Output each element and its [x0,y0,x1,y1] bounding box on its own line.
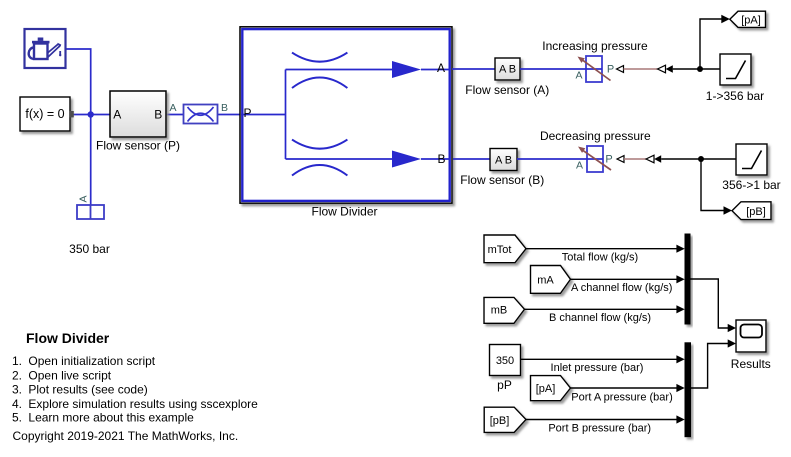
svg-text:B: B [221,102,228,114]
svg-text:pP: pP [497,378,512,392]
svg-text:350 bar: 350 bar [69,242,110,256]
svg-text:A channel flow (kg/s): A channel flow (kg/s) [571,282,673,294]
svg-text:mA: mA [537,275,554,287]
svg-text:Flow sensor (A): Flow sensor (A) [465,83,549,97]
svg-text:mB: mB [491,305,508,317]
svg-text:Open initialization script: Open initialization script [28,354,155,368]
svg-text:4.: 4. [12,397,22,411]
svg-text:B: B [437,152,445,166]
svg-text:Learn more about this example: Learn more about this example [28,411,194,425]
svg-text:Flow Divider: Flow Divider [311,205,377,219]
svg-text:Flow sensor (B): Flow sensor (B) [460,173,544,187]
svg-text:A: A [575,70,582,82]
svg-text:5.: 5. [12,411,22,425]
svg-text:f(x) = 0: f(x) = 0 [25,107,64,121]
svg-text:P: P [605,153,612,165]
svg-text:Increasing pressure: Increasing pressure [542,39,648,53]
svg-text:[pA]: [pA] [536,383,556,395]
svg-text:A B: A B [495,154,512,166]
svg-text:[pB]: [pB] [746,206,766,218]
svg-text:Total flow (kg/s): Total flow (kg/s) [562,252,638,264]
svg-text:Open live script: Open live script [28,368,111,382]
svg-text:350: 350 [496,355,514,367]
svg-text:Explore simulation results usi: Explore simulation results using sscexpl… [28,397,258,411]
svg-text:P: P [244,106,252,120]
svg-text:A: A [170,102,177,114]
svg-text:[pB]: [pB] [490,415,510,427]
svg-text:mTot: mTot [488,244,512,256]
svg-text:Flow Divider: Flow Divider [26,330,110,346]
svg-text:A: A [113,108,121,122]
svg-text:Flow sensor (P): Flow sensor (P) [96,139,180,153]
svg-text:Port A pressure (bar): Port A pressure (bar) [571,391,673,403]
svg-text:Results: Results [731,357,771,371]
svg-text:[pA]: [pA] [741,15,761,27]
svg-text:3.: 3. [12,383,22,397]
svg-text:1->356 bar: 1->356 bar [706,89,764,103]
svg-text:A: A [78,195,90,202]
svg-text:B: B [154,108,162,122]
svg-text:A: A [576,160,583,172]
svg-text:1.: 1. [12,354,22,368]
svg-text:Copyright 2019-2021 The MathWo: Copyright 2019-2021 The MathWorks, Inc. [13,429,239,443]
svg-text:2.: 2. [12,368,22,382]
svg-text:P: P [607,63,614,75]
svg-text:B channel flow (kg/s): B channel flow (kg/s) [549,312,651,324]
svg-text:Port B pressure (bar): Port B pressure (bar) [548,423,651,435]
svg-text:A B: A B [499,64,516,76]
svg-text:Decreasing pressure: Decreasing pressure [540,129,651,143]
svg-text:Plot results (see code): Plot results (see code) [28,383,147,397]
svg-text:Inlet pressure (bar): Inlet pressure (bar) [551,362,644,374]
svg-text:A: A [437,61,445,75]
svg-text:356->1 bar: 356->1 bar [722,178,780,192]
